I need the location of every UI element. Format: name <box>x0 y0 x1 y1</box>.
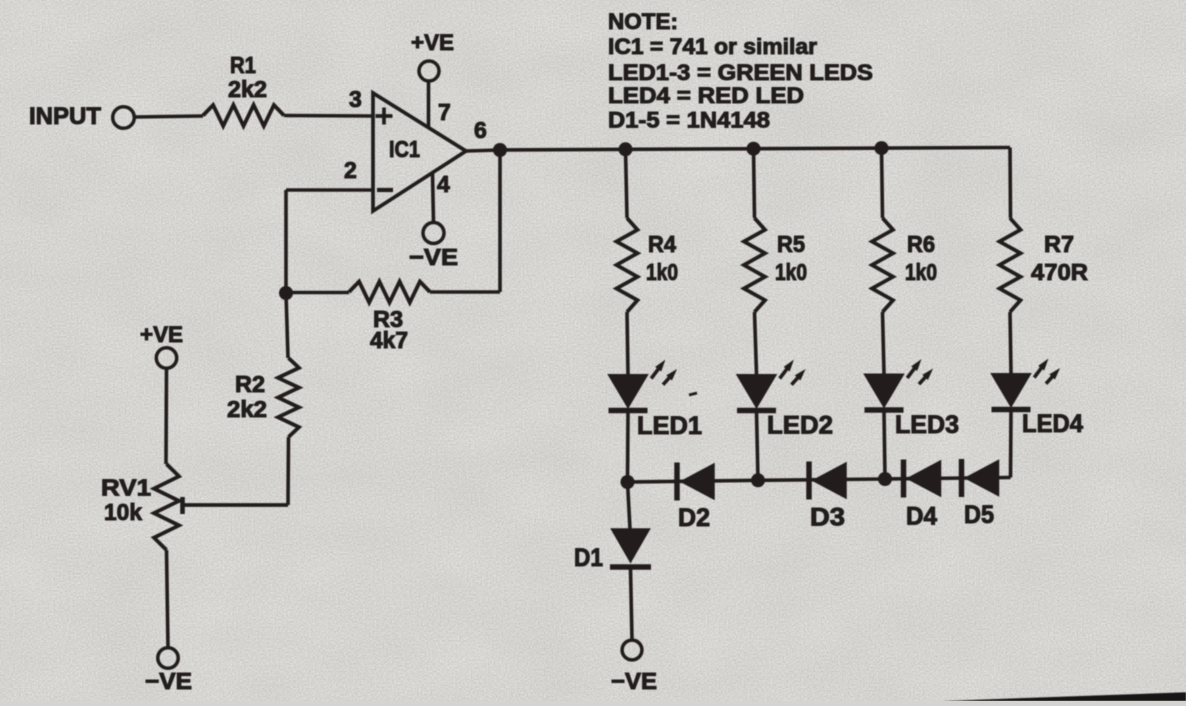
svg-text:D1-5 = 1N4148: D1-5 = 1N4148 <box>608 108 770 133</box>
svg-text:3: 3 <box>349 86 362 112</box>
svg-text:LED4 = RED LED: LED4 = RED LED <box>608 83 804 108</box>
svg-text:4: 4 <box>437 171 450 197</box>
svg-text:−VE: −VE <box>611 668 657 694</box>
svg-text:LED1-3 = GREEN LEDS: LED1-3 = GREEN LEDS <box>608 60 873 85</box>
svg-text:1k0: 1k0 <box>775 259 807 285</box>
svg-text:D5: D5 <box>964 501 994 529</box>
svg-text:IC1 = 741 or similar: IC1 = 741 or similar <box>608 34 817 59</box>
svg-text:+VE: +VE <box>140 322 183 347</box>
svg-text:−VE: −VE <box>145 668 192 694</box>
svg-text:D3: D3 <box>810 504 845 532</box>
svg-text:+VE: +VE <box>411 30 454 55</box>
svg-text:LED1: LED1 <box>637 412 702 440</box>
svg-text:4k7: 4k7 <box>370 327 408 353</box>
svg-text:D1: D1 <box>574 544 603 572</box>
svg-text:2: 2 <box>344 157 357 183</box>
svg-text:D4: D4 <box>906 503 937 531</box>
svg-text:R7: R7 <box>1044 231 1074 257</box>
svg-text:−VE: −VE <box>409 244 458 270</box>
svg-text:R1: R1 <box>230 52 256 78</box>
svg-text:LED2: LED2 <box>767 412 833 440</box>
svg-text:LED3: LED3 <box>895 411 959 439</box>
svg-text:7: 7 <box>438 99 451 125</box>
svg-text:D2: D2 <box>678 504 710 532</box>
svg-text:R6: R6 <box>907 231 935 257</box>
svg-text:IC1: IC1 <box>389 136 420 162</box>
svg-text:1k0: 1k0 <box>905 259 937 285</box>
svg-text:2k2: 2k2 <box>228 76 267 102</box>
svg-text:6: 6 <box>474 117 487 143</box>
svg-text:RV1: RV1 <box>101 475 151 501</box>
svg-text:10k: 10k <box>104 499 142 525</box>
svg-text:1k0: 1k0 <box>646 259 678 285</box>
svg-text:2k2: 2k2 <box>227 396 267 422</box>
svg-text:470R: 470R <box>1031 259 1088 285</box>
svg-text:R2: R2 <box>235 371 265 397</box>
svg-text:INPUT: INPUT <box>29 103 101 130</box>
svg-text:R4: R4 <box>648 231 676 257</box>
svg-text:R5: R5 <box>777 231 805 257</box>
svg-text:LED4: LED4 <box>1022 410 1083 438</box>
svg-text:NOTE:: NOTE: <box>608 9 678 34</box>
